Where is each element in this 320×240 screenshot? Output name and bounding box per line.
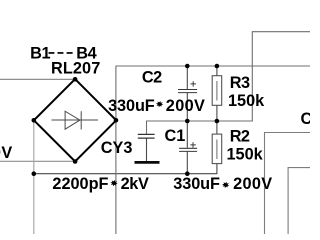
svg-text:200V: 200V <box>166 97 205 115</box>
svg-text:2kV: 2kV <box>121 175 149 193</box>
junction dot mid rail R <box>215 119 220 124</box>
junction dot bridge left vertex <box>32 118 37 123</box>
junction dot bridge top vertex <box>73 77 78 82</box>
svg-text:150k: 150k <box>227 145 264 163</box>
diode symbol inside bridge <box>52 111 99 129</box>
wire R3 pins <box>216 66 218 121</box>
label 2200pF*2kV <box>52 175 149 193</box>
wire CY3 pins <box>146 138 148 161</box>
junction dot bottom rail left <box>32 171 37 176</box>
svg-text:330uF: 330uF <box>173 175 220 193</box>
junction dot bridge right vertex <box>114 118 119 123</box>
svg-text:150k: 150k <box>228 92 265 110</box>
wire R2 pins <box>216 121 218 134</box>
wire DC plus top rail <box>116 65 311 67</box>
svg-text:R2: R2 <box>230 128 250 146</box>
wire mid rail (C2/C1 junction) <box>147 32 311 135</box>
svg-text:230V: 230V <box>0 144 13 162</box>
svg-text:2200pF: 2200pF <box>52 175 108 193</box>
earth bar under CY3 <box>135 161 160 164</box>
wire DC minus bottom rail <box>34 163 217 173</box>
svg-text:CY3: CY3 <box>101 139 133 157</box>
label 330uF*200V lower <box>173 175 272 193</box>
resistor R3 <box>212 76 222 106</box>
wire DC plus vertical through bridge right vertex <box>115 66 117 234</box>
svg-text:C1: C1 <box>165 127 186 145</box>
svg-text:330uF: 330uF <box>108 97 155 115</box>
svg-text:RL207: RL207 <box>51 59 100 77</box>
svg-text:200V: 200V <box>233 175 272 193</box>
capacitor C2 (electrolytic) <box>178 81 197 92</box>
junction dot C2 top <box>185 64 190 69</box>
wire AC input top (to bridge top vertex) <box>0 78 75 80</box>
wire bridge left vertex down to bottom edge <box>33 120 35 234</box>
wire right exit B <box>288 168 310 234</box>
label 330uF*200V upper <box>108 97 205 115</box>
svg-text:C5: C5 <box>301 110 311 128</box>
resistor R2 <box>212 134 222 164</box>
wire C1 pins <box>186 121 188 174</box>
bridge rectifier B1---B4 diamond <box>34 79 116 161</box>
junction dot bridge bottom vertex <box>73 159 78 164</box>
capacitor CY3 <box>138 134 155 138</box>
capacitor C1 (electrolytic) <box>179 142 197 151</box>
svg-text:C2: C2 <box>142 69 162 87</box>
svg-text:R3: R3 <box>230 74 250 92</box>
wire C2 pins <box>186 66 188 121</box>
svg-text:B1: B1 <box>30 45 50 63</box>
junction dot C1 bottom <box>185 171 190 176</box>
junction dot R3 top <box>215 64 220 69</box>
junction dot mid rail C <box>185 119 190 124</box>
wire AC input bottom (230V line to bridge bottom vertex) <box>0 160 75 162</box>
wire right exit A <box>265 133 311 235</box>
